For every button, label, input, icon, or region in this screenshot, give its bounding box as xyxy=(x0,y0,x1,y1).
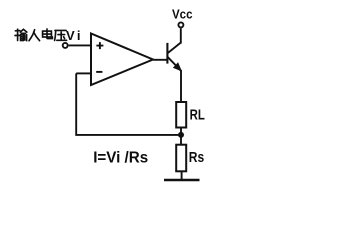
wire feedback xyxy=(76,73,181,134)
入 xyxy=(29,30,35,41)
电 xyxy=(43,31,52,37)
压 xyxy=(55,29,66,31)
ground xyxy=(164,179,200,182)
svg-text:RL: RL xyxy=(190,107,205,124)
op-amp minus sign xyxy=(96,71,102,73)
svg-text:Vcc: Vcc xyxy=(172,6,193,21)
svg-text:Rs: Rs xyxy=(189,149,204,166)
输 xyxy=(15,30,20,32)
wire collector to Vcc xyxy=(180,28,182,43)
wire noninverting input xyxy=(69,44,91,46)
input terminal xyxy=(63,43,68,48)
wire op-amp output xyxy=(153,59,167,61)
transistor Q1 xyxy=(167,43,181,71)
resistor Rs xyxy=(176,145,186,172)
label 输入电压Vi xyxy=(15,28,81,43)
resistor RL xyxy=(176,102,186,128)
wire emitter to RL xyxy=(180,70,182,102)
node junction xyxy=(178,132,184,138)
op-amp U1 xyxy=(91,34,153,86)
Vcc terminal xyxy=(178,22,183,27)
op-amp plus sign xyxy=(96,42,103,49)
wire RL to Rs xyxy=(180,128,182,145)
svg-text:Vi: Vi xyxy=(66,28,81,43)
wire inverting input xyxy=(76,72,91,74)
wire Rs to ground xyxy=(181,171,183,179)
svg-text:I=Vi /Rs: I=Vi /Rs xyxy=(93,150,148,167)
